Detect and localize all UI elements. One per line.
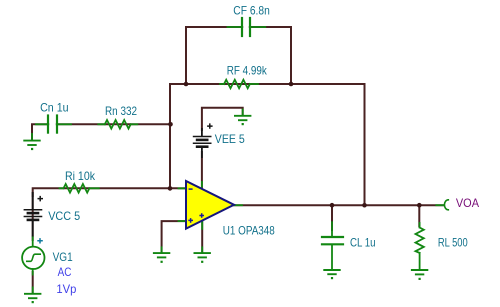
svg-text:AC: AC [58,265,72,279]
svg-text:U1 OPA348: U1 OPA348 [223,223,275,237]
svg-text:RF 4.99k: RF 4.99k [227,64,268,78]
svg-text:1Vp: 1Vp [56,282,76,296]
svg-text:CL 1u: CL 1u [350,235,376,249]
svg-text:VG1: VG1 [53,250,73,264]
svg-text:RL 500: RL 500 [438,236,468,250]
svg-text:VEE 5: VEE 5 [215,132,245,146]
svg-text:VCC 5: VCC 5 [48,209,80,223]
svg-text:Ri 10k: Ri 10k [65,169,96,183]
svg-text:CF 6.8n: CF 6.8n [233,4,269,18]
svg-text:Rn 332: Rn 332 [105,104,137,118]
svg-text:VOA: VOA [456,196,479,210]
svg-text:Cn 1u: Cn 1u [40,100,69,114]
